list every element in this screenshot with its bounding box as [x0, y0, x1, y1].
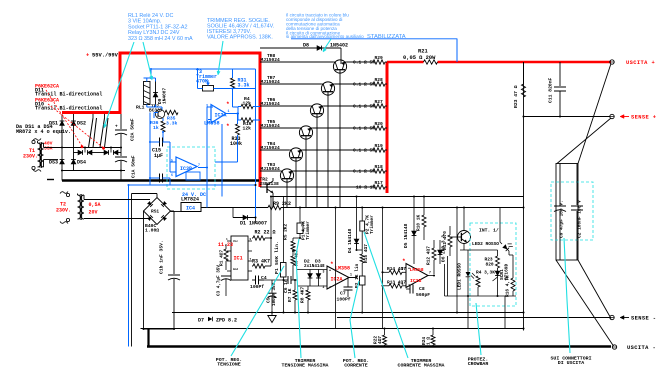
svg-text:3: 3: [323, 270, 325, 274]
svg-text:0,05 Ω 20W: 0,05 Ω 20W: [403, 55, 436, 61]
svg-text:C1A 50mF: C1A 50mF: [131, 155, 137, 178]
svg-text:Vcc: Vcc: [233, 240, 238, 243]
svg-text:USCITA +: USCITA +: [626, 60, 655, 66]
svg-text:+: +: [408, 268, 410, 272]
svg-text:IC4: IC4: [186, 206, 195, 212]
svg-text:SENSE -: SENSE -: [631, 316, 656, 322]
svg-text:C9 47µF 100 V.: C9 47µF 100 V.: [559, 200, 565, 238]
svg-text:TENSIONE: TENSIONE: [217, 361, 241, 367]
svg-text:VALORE APPROSS. 138K.: VALORE APPROSS. 138K.: [207, 35, 273, 41]
svg-text:R20: R20: [375, 121, 384, 127]
svg-text:100Pf: 100Pf: [250, 284, 264, 290]
svg-text:D5 1N4148: D5 1N4148: [403, 223, 409, 248]
svg-text:Trimmer: Trimmer: [369, 215, 375, 234]
svg-text:5: 5: [402, 267, 404, 271]
svg-text:TENSIONE MASSIMA: TENSIONE MASSIMA: [282, 362, 329, 368]
svg-text:IC3B: IC3B: [180, 166, 192, 172]
svg-text:si alimenta dall'avvolgimento: si alimenta dall'avvolgimento ausiliario: [286, 34, 365, 39]
svg-text:7: 7: [198, 163, 200, 167]
svg-text:R16 4,7K: R16 4,7K: [505, 275, 511, 297]
svg-text:560pF: 560pF: [416, 292, 430, 298]
svg-text:4Ω7: 4Ω7: [377, 336, 383, 344]
svg-text:C1b 1nF 35V.: C1b 1nF 35V.: [159, 240, 165, 274]
svg-text:MJ15024: MJ15024: [261, 79, 281, 85]
svg-text:INT. 1/: INT. 1/: [479, 228, 499, 234]
svg-text:2x1N4148: 2x1N4148: [304, 264, 325, 269]
svg-text:R1 4Ω7: R1 4Ω7: [219, 249, 225, 266]
svg-text:MJ15024: MJ15024: [261, 57, 281, 63]
svg-text:1: 1: [228, 109, 230, 113]
svg-text:CORRENTE: CORRENTE: [344, 362, 368, 368]
svg-text:R9 2K2: R9 2K2: [273, 201, 291, 207]
svg-text:DS4: DS4: [77, 160, 86, 166]
svg-text:MJ15024: MJ15024: [261, 166, 281, 172]
svg-text:R10 1K: R10 1K: [416, 214, 422, 231]
svg-text:DS3: DS3: [49, 160, 58, 166]
svg-text:CROWBAR: CROWBAR: [468, 361, 489, 367]
svg-text:STABILIZZATA: STABILIZZATA: [367, 34, 406, 40]
svg-text:LM358: LM358: [335, 266, 350, 272]
svg-text:0.1 Ω 5W: 0.1 Ω 5W: [353, 60, 375, 66]
svg-text:R18: R18: [375, 164, 384, 170]
svg-text:ZPD 8.2: ZPD 8.2: [216, 318, 237, 324]
svg-text:C2 100nF 100 V: C2 100nF 100 V: [577, 200, 583, 238]
svg-text:R23 47 Ω: R23 47 Ω: [513, 85, 519, 108]
svg-text:MR872 x 4 o equiv.: MR872 x 4 o equiv.: [16, 129, 71, 135]
svg-text:R11 470: R11 470: [442, 231, 448, 250]
svg-text:R29: R29: [375, 55, 384, 61]
svg-text:1.00Ω: 1.00Ω: [145, 228, 159, 234]
svg-text:*: *: [226, 101, 230, 108]
svg-text:D8: D8: [303, 43, 309, 49]
svg-text:R17: R17: [375, 180, 384, 186]
svg-text:*: *: [330, 261, 334, 268]
svg-text:+: +: [115, 125, 118, 130]
svg-text:+: +: [86, 53, 89, 59]
svg-text:6: 6: [171, 173, 173, 177]
svg-text:C3 4,7µF 35V: C3 4,7µF 35V: [217, 265, 222, 296]
svg-text:R28: R28: [375, 77, 384, 83]
svg-text:1N4007: 1N4007: [162, 87, 168, 104]
svg-text:D4 1N4148: D4 1N4148: [347, 228, 353, 253]
svg-text:R2 22 Ω: R2 22 Ω: [255, 230, 276, 236]
svg-text:12k: 12k: [243, 101, 252, 107]
svg-text:Trimmer: Trimmer: [305, 221, 311, 240]
svg-text:RL1: RL1: [136, 105, 145, 111]
svg-text:6: 6: [402, 282, 404, 286]
svg-text:1N5402: 1N5402: [330, 43, 348, 49]
svg-text:C11 820nF: C11 820nF: [548, 77, 554, 103]
svg-text:230V.: 230V.: [56, 208, 71, 214]
svg-text:P1 50K lin.: P1 50K lin.: [274, 241, 280, 274]
svg-text:1k: 1k: [153, 125, 159, 131]
svg-text:R4 3,3K: R4 3,3K: [476, 269, 495, 275]
svg-text:C2A 50mF: C2A 50mF: [130, 118, 136, 141]
svg-text:0,5A: 0,5A: [89, 202, 101, 208]
svg-text:+: +: [329, 270, 331, 274]
svg-text:-: -: [329, 285, 331, 289]
svg-text:D7: D7: [198, 318, 204, 324]
svg-text:R7 1K: R7 1K: [287, 288, 293, 302]
svg-text:R8 4K7: R8 4K7: [300, 286, 306, 303]
svg-text:55V./99V: 55V./99V: [92, 52, 119, 58]
svg-text:MJ15024: MJ15024: [261, 145, 281, 151]
svg-text:Transil Bi-directional: Transil Bi-directional: [35, 106, 102, 112]
svg-text:35A: 35A: [44, 146, 53, 152]
svg-text:LM358: LM358: [410, 267, 424, 273]
svg-text:0.1 Ω 5W: 0.1 Ω 5W: [353, 104, 375, 110]
svg-text:12k: 12k: [243, 126, 252, 132]
svg-text:3.3k: 3.3k: [166, 121, 177, 127]
svg-text:LM7824: LM7824: [181, 197, 199, 203]
svg-text:IC3A: IC3A: [215, 112, 227, 118]
svg-text:R27: R27: [375, 99, 384, 105]
svg-text:DI USCITA: DI USCITA: [558, 360, 584, 366]
svg-text:R15 4Ω7: R15 4Ω7: [363, 244, 369, 263]
svg-text:100Pf: 100Pf: [337, 297, 351, 303]
svg-text:R5 2K2: R5 2K2: [283, 223, 289, 240]
svg-text:1: 1: [350, 273, 352, 277]
svg-text:IC1: IC1: [234, 256, 243, 262]
svg-text:IC2B: IC2B: [410, 278, 421, 284]
svg-text:CORRENTE MASSIMA: CORRENTE MASSIMA: [398, 362, 445, 368]
svg-text:R3 4K7: R3 4K7: [252, 259, 270, 265]
svg-text:R19: R19: [375, 143, 384, 149]
svg-text:USCITA -: USCITA -: [627, 345, 656, 351]
svg-text:3: 3: [206, 104, 208, 108]
svg-text:10 Ω 1W: 10 Ω 1W: [356, 185, 376, 191]
svg-text:IC2A: IC2A: [331, 277, 343, 283]
svg-text:1 Ω: 1 Ω: [426, 337, 432, 345]
svg-text:-: -: [408, 283, 410, 287]
svg-text:2: 2: [323, 285, 325, 289]
svg-text:7: 7: [429, 271, 431, 275]
svg-text:820: 820: [486, 262, 494, 268]
svg-text:*: *: [402, 258, 406, 265]
svg-text:0.1 Ω 5W: 0.1 Ω 5W: [353, 126, 375, 132]
svg-text:323 Ω 358 mH 24 V 60 mA: 323 Ω 358 mH 24 V 60 mA: [128, 36, 193, 42]
svg-text:0.1 Ω 5W: 0.1 Ω 5W: [353, 148, 375, 154]
svg-text:SENSE +: SENSE +: [631, 115, 656, 121]
svg-text:+: +: [115, 152, 118, 157]
svg-text:DS2: DS2: [77, 121, 86, 127]
svg-text:LED2 ROSSO: LED2 ROSSO: [472, 241, 499, 247]
svg-text:MJ15024: MJ15024: [261, 123, 281, 129]
svg-text:5: 5: [171, 159, 173, 163]
svg-text:*: *: [226, 123, 230, 130]
svg-text:Gnd: Gnd: [233, 267, 238, 271]
svg-text:20V: 20V: [89, 210, 98, 216]
svg-text:100k: 100k: [230, 141, 242, 147]
svg-text:C5: C5: [266, 297, 272, 303]
svg-text:11.23: 11.23: [218, 242, 233, 248]
svg-text:C8: C8: [419, 286, 425, 292]
svg-text:0.1 Ω 5W: 0.1 Ω 5W: [353, 169, 375, 175]
svg-text:MJ15024: MJ15024: [261, 101, 281, 107]
svg-text:C7: C7: [340, 291, 346, 297]
svg-text:2: 2: [206, 120, 208, 124]
svg-text:1µF: 1µF: [154, 153, 163, 159]
svg-text:R12 4Ω7: R12 4Ω7: [426, 246, 432, 265]
svg-text:D1 1N4007: D1 1N4007: [240, 221, 267, 227]
svg-text:RS1: RS1: [151, 209, 159, 215]
svg-text:0.1 Ω 5W: 0.1 Ω 5W: [353, 82, 375, 88]
svg-text:230V.: 230V.: [23, 154, 38, 160]
svg-text:R21: R21: [418, 49, 428, 55]
svg-text:3.3k: 3.3k: [238, 83, 250, 89]
